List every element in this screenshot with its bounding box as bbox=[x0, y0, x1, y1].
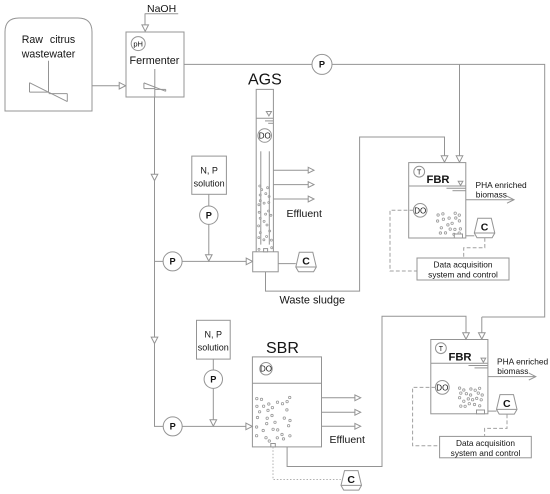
FBR 2 liquid level line and symbol bbox=[431, 358, 488, 368]
svg-text:N, P: N, P bbox=[205, 330, 223, 340]
wire: FBR 2 to compressor C bbox=[488, 410, 497, 412]
svg-text:N, P: N, P bbox=[200, 166, 218, 176]
FBR 1 liquid level line and symbol bbox=[409, 181, 466, 191]
T sensor FBR 1 bbox=[414, 166, 425, 177]
AGS effluent arrows bbox=[273, 167, 314, 202]
DO sensor FBR 1 bbox=[413, 204, 427, 218]
pH sensor bbox=[131, 37, 145, 51]
wire: fermenter output to right rail bbox=[184, 64, 545, 317]
SBR vessel bbox=[252, 357, 321, 447]
svg-text:Effluent: Effluent bbox=[330, 434, 365, 446]
fermenter stirrer bbox=[144, 69, 166, 97]
dashed wire: C (FBR 2) to data box bbox=[485, 414, 507, 436]
svg-text:system and control: system and control bbox=[451, 448, 521, 458]
wire: N,P 2 down to pump bbox=[212, 359, 214, 370]
svg-text:T: T bbox=[417, 170, 422, 177]
wire: AGS waste sludge to FBR 1 (left inlet) bbox=[266, 137, 448, 291]
wire: FBR 1 to compressor C bbox=[466, 235, 475, 237]
svg-text:biomass: biomass bbox=[476, 190, 507, 200]
svg-text:DO: DO bbox=[260, 365, 272, 374]
pump P on N,P 2 line bbox=[204, 370, 222, 388]
dotted wire: SBR sparger to compressor C bbox=[273, 447, 341, 480]
svg-text:Waste sludge: Waste sludge bbox=[280, 295, 346, 307]
pump P on N,P 1 line bbox=[200, 206, 218, 224]
AGS water level symbol bbox=[256, 112, 273, 124]
AGS column vessel bbox=[256, 89, 273, 251]
svg-text:SBR: SBR bbox=[266, 340, 299, 357]
svg-text:P: P bbox=[210, 375, 216, 385]
FBR 2 vessel bbox=[431, 340, 488, 414]
T sensor FBR 2 bbox=[436, 343, 447, 354]
svg-text:Data acquisition: Data acquisition bbox=[433, 260, 492, 270]
svg-text:T: T bbox=[439, 346, 444, 353]
svg-text:Fermenter: Fermenter bbox=[130, 55, 180, 67]
svg-text:pH: pH bbox=[133, 40, 143, 49]
svg-text:C: C bbox=[347, 474, 355, 486]
FBR 1 sparger bbox=[454, 234, 462, 238]
compressor C (SBR) bbox=[341, 471, 362, 491]
svg-text:DO: DO bbox=[414, 206, 426, 215]
svg-text:Raw citrus: Raw citrus bbox=[22, 34, 75, 46]
svg-text:solution: solution bbox=[194, 179, 225, 189]
DO sensor in AGS bbox=[258, 129, 272, 143]
SBR liquid level line bbox=[252, 382, 321, 384]
wire: AGS base to compressor C bbox=[278, 263, 296, 265]
wire: branch to AGS base with pump bbox=[155, 258, 253, 265]
FBR 2 sparger bbox=[477, 410, 485, 414]
AGS base box bbox=[253, 249, 279, 272]
AGS granule bubbles bbox=[258, 185, 273, 250]
SBR effluent arrows bbox=[322, 395, 361, 429]
svg-text:P: P bbox=[206, 211, 212, 221]
wire: fermenter bottom rail down to SBR feed bbox=[155, 97, 164, 426]
svg-text:PHA enriched: PHA enriched bbox=[476, 180, 528, 190]
svg-text:DO: DO bbox=[259, 132, 271, 141]
FBR 1 vessel bbox=[409, 163, 466, 238]
SBR granule dots bbox=[255, 396, 291, 442]
svg-text:NaOH: NaOH bbox=[147, 3, 176, 15]
data acquisition box (FBR 2) bbox=[440, 436, 532, 457]
svg-text:P: P bbox=[319, 60, 325, 70]
FBR 2 biomass dots bbox=[458, 387, 483, 408]
data acquisition box (FBR 1) bbox=[417, 258, 509, 280]
wire: pump down to AGS feed junction bbox=[206, 224, 213, 261]
dashed wire: DO 1 to data box bbox=[390, 210, 417, 271]
FBR 1 biomass dots bbox=[436, 212, 461, 236]
wire: tank to fermenter with arrow bbox=[92, 82, 126, 89]
svg-text:C: C bbox=[481, 222, 489, 234]
svg-text:P: P bbox=[170, 257, 176, 267]
tank stirrer bbox=[30, 61, 68, 102]
N,P solution tank 2 bbox=[197, 320, 231, 359]
SBR sparger bbox=[271, 444, 276, 447]
dashed wire: DO 2 to data box bbox=[413, 387, 440, 445]
wire: SBR waste sludge to FBR 2 (left inlet) bbox=[287, 316, 469, 466]
pump P on SBR feed bbox=[163, 423, 252, 430]
wire: N,P 1 down to pump bbox=[208, 194, 210, 206]
svg-text:solution: solution bbox=[198, 343, 229, 353]
fermenter vessel bbox=[126, 32, 184, 97]
svg-text:C: C bbox=[503, 398, 511, 410]
wire: PHA biomass outlet arrow (FBR 1) bbox=[466, 196, 514, 203]
tank: raw citrus wastewater vessel bbox=[5, 18, 92, 111]
compressor C (AGS) bbox=[296, 252, 317, 272]
wire: pump down to SBR feed junction bbox=[210, 388, 217, 426]
pump P on fermenter output bbox=[312, 54, 332, 74]
svg-text:wastewater: wastewater bbox=[21, 49, 76, 61]
flow arrow on rail (upper) bbox=[151, 174, 158, 180]
DO sensor SBR bbox=[260, 363, 272, 375]
svg-text:AGS: AGS bbox=[248, 72, 282, 89]
svg-text:P: P bbox=[170, 422, 176, 432]
wire: right rail down into FBR 2 (right inlet) bbox=[479, 317, 486, 339]
DO sensor FBR 2 bbox=[435, 381, 449, 395]
pump P on AGS feed bbox=[163, 252, 182, 271]
svg-text:FBR: FBR bbox=[449, 352, 472, 364]
svg-text:biomass: biomass bbox=[497, 366, 528, 376]
dashed wire: C (FBR 1) to data box bbox=[464, 238, 485, 258]
svg-text:PHA enriched: PHA enriched bbox=[497, 357, 549, 367]
svg-text:Data acquisition: Data acquisition bbox=[456, 438, 515, 448]
svg-text:system and control: system and control bbox=[428, 270, 498, 280]
AGS draft tube bbox=[261, 151, 270, 244]
svg-text:DO: DO bbox=[436, 383, 448, 392]
wire: branch down into FBR 1 (right inlet) bbox=[456, 64, 463, 162]
svg-text:FBR: FBR bbox=[427, 174, 450, 186]
svg-text:C: C bbox=[302, 256, 310, 268]
compressor C (FBR 2) bbox=[497, 395, 518, 415]
N,P solution tank 1 bbox=[192, 156, 227, 194]
flow arrow on rail (lower) bbox=[151, 337, 158, 343]
compressor C (FBR 1) bbox=[474, 218, 495, 238]
wire: PHA biomass outlet arrow (FBR 2) bbox=[488, 373, 536, 380]
svg-text:Effluent: Effluent bbox=[287, 208, 322, 220]
